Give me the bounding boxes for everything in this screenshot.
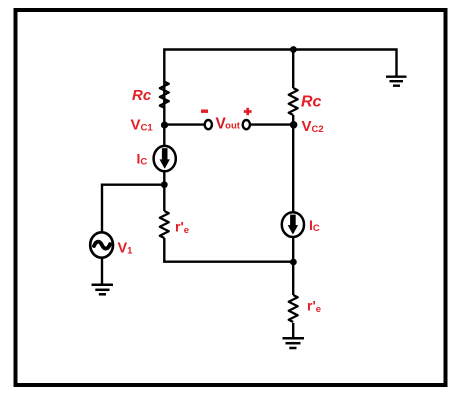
wire current source to bottom junction <box>292 238 294 296</box>
wire top rail <box>164 50 396 126</box>
node junction V1 wire <box>161 181 168 188</box>
wire re to ground bottom right <box>292 323 294 338</box>
ground below V1 <box>92 285 114 295</box>
current source IC left <box>154 146 176 171</box>
wire resistor to VC2 <box>292 115 294 128</box>
node junction bottom right <box>290 259 297 266</box>
node VC2 <box>290 121 298 129</box>
terminal plus (open circle) <box>243 120 250 129</box>
svg-text:Rc: Rc <box>132 87 152 104</box>
ground top right <box>386 77 407 86</box>
label minus sign <box>201 109 208 112</box>
resistor re right <box>289 295 298 322</box>
resistor RC right <box>289 88 298 115</box>
node VC1 <box>161 121 168 128</box>
label plus sign <box>244 108 252 115</box>
wire current source to re resistor <box>163 171 165 211</box>
wire V1 to junction <box>102 185 164 234</box>
wire VC1 node to current source <box>163 125 165 147</box>
node junction top right <box>290 46 297 53</box>
terminal minus (open circle) <box>205 120 212 129</box>
ground bottom right <box>283 338 305 348</box>
wire VC2 to right current source <box>292 125 294 213</box>
wire V1 to ground <box>101 257 103 285</box>
svg-text:Rc: Rc <box>301 94 322 111</box>
resistor re left <box>160 211 169 238</box>
source V1 <box>90 232 113 257</box>
wire VC1 to minus terminal <box>165 123 205 125</box>
resistor RC left <box>160 82 169 108</box>
current source IC right <box>282 212 304 237</box>
wire right branch top <box>292 50 294 89</box>
wire plus terminal to VC2 <box>250 123 294 125</box>
wire bottom rail <box>164 238 293 262</box>
